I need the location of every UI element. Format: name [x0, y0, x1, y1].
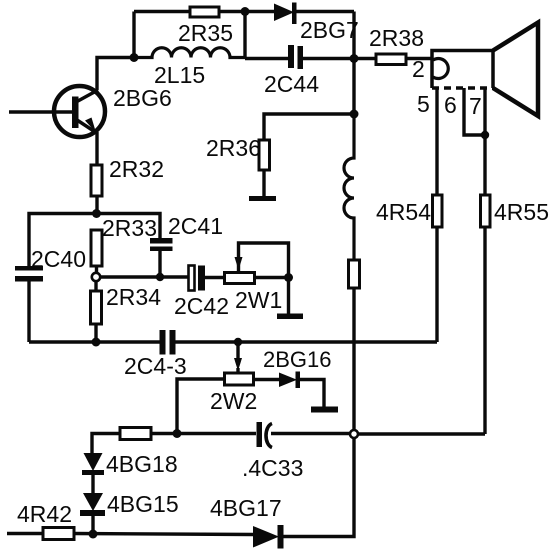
ground under 2BG16 — [311, 407, 338, 413]
wire rail bottom left — [7, 532, 43, 535]
svg-text:2: 2 — [412, 56, 425, 82]
svg-text:4R42: 4R42 — [17, 501, 72, 527]
svg-text:2R36: 2R36 — [206, 135, 261, 161]
resistor 2R34 — [91, 291, 102, 324]
node junction cap/2R38 — [350, 54, 359, 63]
resistor 2R38 — [354, 54, 432, 65]
wire base of 2BG6 — [9, 110, 72, 113]
node open junction rail low — [350, 430, 358, 438]
svg-text:2L15: 2L15 — [154, 62, 205, 88]
resistor 4R55 — [481, 135, 491, 434]
diode 4BG18 — [82, 453, 104, 493]
speaker — [432, 23, 538, 117]
wire circle to 2R34 — [94, 282, 97, 292]
wire speaker 7 — [483, 88, 486, 135]
ground under 2W1 — [277, 314, 303, 320]
svg-text:2R33: 2R33 — [102, 215, 157, 241]
svg-text:2W2: 2W2 — [210, 388, 257, 414]
node junction 2R34 bottom — [92, 338, 101, 347]
wire rail mid right — [176, 340, 438, 343]
resistor 2R32 — [91, 165, 102, 196]
svg-text:2BG7: 2BG7 — [300, 17, 359, 43]
transistor 2BG6 — [54, 86, 105, 137]
ground under 2R36 — [249, 196, 276, 201]
wire collector up — [97, 58, 134, 91]
node junction at collector/coil — [130, 53, 139, 62]
resistor 2R35 — [190, 7, 219, 17]
wire emitter down — [95, 132, 98, 165]
resistor 2R36 — [259, 140, 270, 170]
svg-text:4BG17: 4BG17 — [210, 495, 282, 521]
svg-text:2C4-3: 2C4-3 — [124, 353, 187, 379]
inductor vertical — [344, 114, 354, 260]
wire left to 2C40 — [29, 214, 97, 268]
node junction 6-7 — [481, 131, 489, 139]
resistor small on vertical — [349, 260, 360, 288]
svg-text:2C41: 2C41 — [168, 213, 223, 239]
potentiometer 2W1 — [225, 243, 289, 284]
capacitor 2C41 — [150, 238, 173, 277]
svg-text:2R32: 2R32 — [109, 156, 164, 182]
wire right to 2C41 — [97, 214, 161, 239]
wire rail bottom mid — [74, 534, 253, 535]
svg-text:2W1: 2W1 — [235, 287, 282, 313]
wire rail mid left — [29, 340, 160, 343]
resistor unlabeled low — [120, 428, 151, 440]
node junction diodes bottom — [89, 530, 98, 539]
wire rail low mid — [151, 432, 256, 435]
node junction 2W2 wiper — [234, 338, 242, 346]
svg-text:2BG6: 2BG6 — [113, 85, 172, 111]
resistor 4R54 — [433, 195, 443, 227]
resistor 2R33 — [91, 230, 102, 266]
svg-text:4R55: 4R55 — [494, 199, 549, 225]
node junction right vertical — [350, 110, 359, 119]
svg-text:4R54: 4R54 — [376, 199, 431, 225]
svg-text:2C44: 2C44 — [264, 71, 319, 97]
node junction 2W2 left leg — [173, 429, 182, 438]
wire vertical node to cap level — [243, 12, 246, 59]
capacitor 2C43 — [160, 330, 176, 355]
svg-text:2R35: 2R35 — [178, 20, 233, 46]
svg-text:2C40: 2C40 — [31, 246, 86, 272]
node junction 2W1 right — [284, 273, 293, 282]
diode 2BG7 — [245, 3, 354, 25]
wire vertical below open node — [352, 438, 355, 536]
diode 4BG15 — [80, 493, 105, 534]
svg-text:2R34: 2R34 — [106, 284, 161, 310]
capacitor 2C40 — [15, 266, 43, 342]
wire top rail left — [134, 10, 190, 13]
wire rail low left — [92, 434, 120, 454]
node junction emitter net — [92, 209, 101, 218]
resistor 4R42 — [43, 528, 74, 540]
svg-text:2C42: 2C42 — [174, 293, 229, 319]
wire 2R36 to ground — [262, 170, 265, 197]
inductor 2L15 — [134, 48, 245, 58]
svg-text:6: 6 — [444, 92, 457, 118]
node open circle — [92, 273, 100, 281]
svg-text:.4C33: .4C33 — [242, 455, 303, 481]
wire right vertical top — [352, 12, 355, 115]
diode 2BG16 — [279, 372, 324, 410]
wire 2R34 down — [94, 324, 97, 342]
wire 2W1 to ground — [287, 278, 290, 315]
svg-text:4BG15: 4BG15 — [107, 491, 179, 517]
capacitor 4C33 — [257, 422, 351, 448]
wire to 2R36 — [264, 114, 354, 140]
svg-text:2R38: 2R38 — [369, 25, 424, 51]
wire speaker 6 — [464, 88, 485, 135]
wire speaker 5 to 4R54 — [435, 88, 438, 195]
svg-text:5: 5 — [417, 91, 430, 117]
node junction top — [241, 7, 250, 16]
wire 4R54 to rail mid — [435, 227, 438, 342]
wire mid tap — [101, 275, 189, 278]
wire top rail right — [219, 10, 245, 13]
wire rail low right — [358, 432, 485, 435]
svg-text:7: 7 — [469, 93, 482, 119]
capacitor 2C44 — [245, 45, 354, 69]
wire 2R33 to circle — [95, 266, 98, 273]
wire to junction — [95, 196, 98, 214]
potentiometer 2W2 — [177, 342, 279, 434]
svg-text:4BG18: 4BG18 — [106, 451, 178, 477]
svg-text:2BG16: 2BG16 — [263, 347, 332, 372]
diode 4BG17 — [253, 525, 354, 549]
wire top-left vertical — [132, 12, 135, 58]
capacitor 2C42 — [189, 266, 225, 291]
node junction 2C41 bottom — [156, 273, 164, 281]
wire vertical down to open node — [352, 288, 355, 431]
